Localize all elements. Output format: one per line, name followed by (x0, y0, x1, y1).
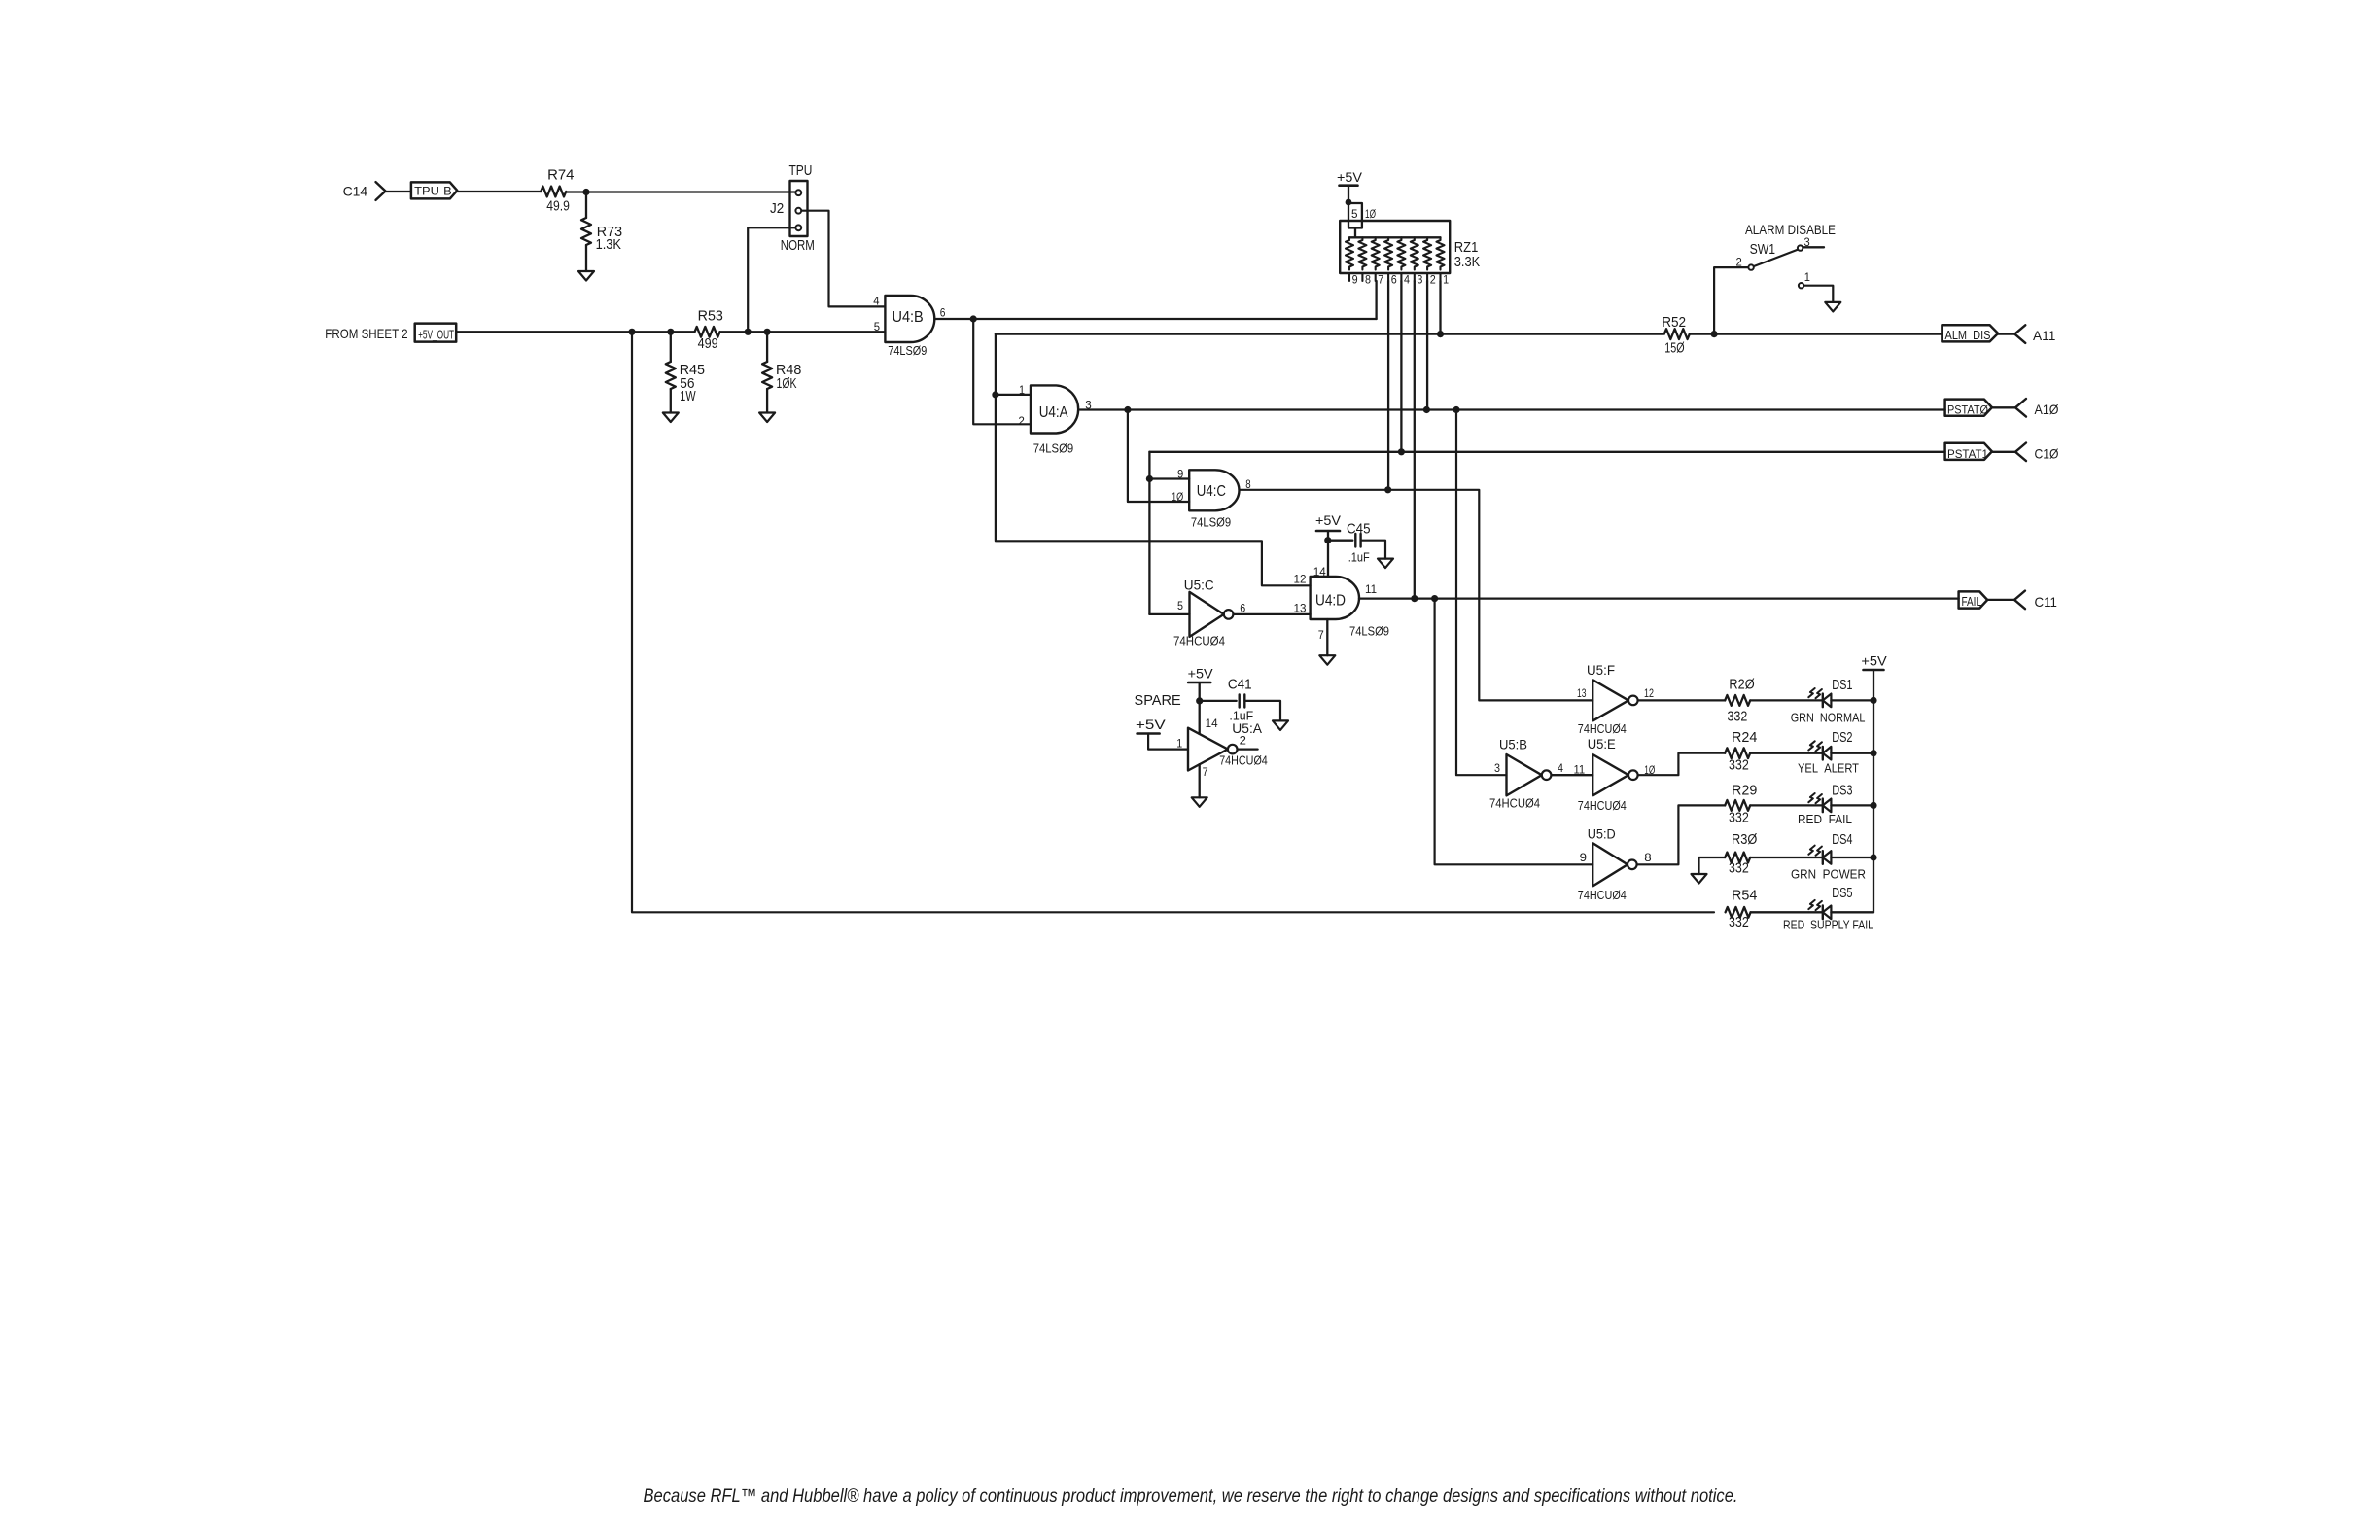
svg-text:C11: C11 (2035, 594, 2058, 610)
svg-text:14: 14 (1206, 717, 1218, 730)
svg-text:SPARE: SPARE (1135, 693, 1182, 709)
svg-text:R74: R74 (547, 167, 574, 183)
svg-text:A11: A11 (2033, 328, 2056, 343)
svg-text:8: 8 (1644, 851, 1652, 864)
svg-text:1: 1 (1443, 275, 1449, 287)
svg-text:332: 332 (1729, 811, 1749, 826)
svg-text:C14: C14 (343, 184, 368, 199)
svg-text:499: 499 (698, 336, 718, 352)
svg-text:R2Ø: R2Ø (1729, 678, 1754, 693)
svg-text:RED FAIL: RED FAIL (1798, 812, 1852, 826)
svg-text:C41: C41 (1228, 678, 1252, 693)
svg-text:12: 12 (1644, 686, 1654, 700)
svg-text:2: 2 (1240, 734, 1247, 748)
svg-text:+5V: +5V (1136, 717, 1166, 732)
svg-text:TPU-B: TPU-B (414, 185, 452, 198)
svg-text:J2: J2 (770, 201, 784, 217)
svg-text:11: 11 (1574, 763, 1586, 777)
svg-text:1Ø: 1Ø (1644, 763, 1655, 777)
svg-text:RZ1: RZ1 (1454, 240, 1479, 256)
svg-text:+5V: +5V (1315, 513, 1341, 528)
svg-text:2: 2 (1430, 275, 1436, 287)
svg-text:U5:D: U5:D (1588, 827, 1616, 842)
svg-text:1Ø: 1Ø (1172, 490, 1183, 504)
svg-text:49.9: 49.9 (546, 199, 570, 215)
svg-text:A1Ø: A1Ø (2035, 402, 2059, 417)
svg-text:U5:E: U5:E (1588, 737, 1616, 752)
svg-text:+5V_OUT: +5V_OUT (418, 328, 454, 341)
svg-text:9: 9 (1580, 851, 1588, 864)
svg-text:DS1: DS1 (1832, 678, 1852, 693)
svg-text:2: 2 (1736, 256, 1743, 269)
svg-text:DS3: DS3 (1832, 784, 1852, 799)
svg-text:74HCUØ4: 74HCUØ4 (1578, 798, 1627, 813)
svg-text:1.3K: 1.3K (596, 237, 622, 253)
svg-text:2: 2 (1018, 414, 1025, 428)
svg-text:6: 6 (1391, 275, 1397, 287)
svg-text:74LSØ9: 74LSØ9 (888, 343, 927, 358)
svg-text:3: 3 (1417, 275, 1422, 287)
svg-text:FAIL: FAIL (1962, 595, 1982, 609)
svg-text:1Ø: 1Ø (1365, 209, 1376, 221)
svg-text:C1Ø: C1Ø (2035, 445, 2059, 461)
svg-text:1ØK: 1ØK (777, 376, 797, 392)
svg-text:12: 12 (1294, 573, 1307, 586)
svg-text:1: 1 (1176, 737, 1182, 751)
svg-text:GRN NORMAL: GRN NORMAL (1791, 711, 1866, 725)
svg-text:C45: C45 (1347, 522, 1371, 538)
svg-text:DS2: DS2 (1832, 730, 1852, 746)
svg-text:3: 3 (1804, 235, 1810, 249)
svg-text:1: 1 (1804, 270, 1810, 284)
svg-text:U5:B: U5:B (1499, 738, 1527, 752)
svg-text:ALM_DIS: ALM_DIS (1945, 329, 1991, 342)
svg-text:4: 4 (1557, 761, 1563, 775)
svg-text:U4:A: U4:A (1039, 404, 1069, 421)
svg-text:TPU: TPU (789, 163, 813, 179)
svg-text:RED SUPPLY FAIL: RED SUPPLY FAIL (1783, 918, 1873, 932)
svg-text:GRN POWER: GRN POWER (1791, 867, 1866, 882)
svg-text:9: 9 (1352, 275, 1358, 287)
svg-text:+5V: +5V (1188, 667, 1213, 682)
svg-text:U4:B: U4:B (892, 309, 924, 326)
svg-text:74HCUØ4: 74HCUØ4 (1489, 796, 1540, 811)
svg-text:U5:F: U5:F (1587, 663, 1615, 678)
svg-text:7: 7 (1378, 275, 1383, 287)
svg-text:R52: R52 (1662, 315, 1686, 331)
svg-text:3: 3 (1494, 761, 1500, 775)
svg-text:YEL ALERT: YEL ALERT (1798, 761, 1859, 776)
svg-text:DS5: DS5 (1832, 886, 1852, 901)
svg-text:7: 7 (1203, 765, 1208, 779)
svg-text:5: 5 (874, 320, 881, 333)
svg-text:SW1: SW1 (1750, 242, 1775, 258)
svg-text:4: 4 (1404, 275, 1411, 287)
svg-text:R24: R24 (1732, 730, 1757, 746)
svg-text:3.3K: 3.3K (1454, 255, 1481, 270)
svg-text:.1uF: .1uF (1348, 550, 1370, 565)
svg-text:3: 3 (1085, 399, 1092, 412)
svg-text:74LSØ9: 74LSØ9 (1191, 515, 1231, 530)
svg-text:332: 332 (1729, 861, 1749, 877)
svg-text:1W: 1W (680, 389, 696, 404)
svg-text:6: 6 (940, 306, 946, 320)
svg-text:332: 332 (1729, 758, 1749, 774)
svg-text:15Ø: 15Ø (1664, 340, 1684, 356)
svg-text:9: 9 (1177, 467, 1184, 480)
svg-text:4: 4 (873, 295, 880, 308)
svg-text:ALARM DISABLE: ALARM DISABLE (1745, 223, 1836, 238)
svg-text:332: 332 (1728, 710, 1748, 725)
svg-text:FROM SHEET 2: FROM SHEET 2 (325, 326, 407, 341)
svg-text:8: 8 (1245, 477, 1251, 491)
svg-text:74HCUØ4: 74HCUØ4 (1219, 753, 1268, 768)
svg-text:14: 14 (1313, 565, 1326, 578)
svg-text:DS4: DS4 (1832, 832, 1852, 848)
svg-text:R54: R54 (1732, 889, 1757, 904)
svg-text:+5V: +5V (1337, 170, 1362, 185)
svg-text:74HCUØ4: 74HCUØ4 (1578, 721, 1627, 736)
svg-text:8: 8 (1365, 275, 1371, 287)
svg-text:13: 13 (1294, 602, 1307, 615)
svg-text:13: 13 (1577, 686, 1587, 700)
svg-text:NORM: NORM (781, 238, 815, 254)
svg-text:332: 332 (1729, 915, 1749, 930)
svg-text:74HCUØ4: 74HCUØ4 (1578, 888, 1627, 902)
svg-text:U5:C: U5:C (1184, 578, 1214, 593)
svg-text:1: 1 (1019, 383, 1025, 397)
svg-text:7: 7 (1318, 628, 1324, 642)
svg-text:Because RFL™ and Hubbell® have: Because RFL™ and Hubbell® have a policy … (644, 1487, 1738, 1507)
svg-text:U4:D: U4:D (1315, 593, 1346, 610)
svg-text:+5V: +5V (1861, 653, 1886, 668)
svg-text:11: 11 (1365, 582, 1377, 596)
svg-text:PSTATØ: PSTATØ (1947, 403, 1988, 417)
svg-text:5: 5 (1351, 209, 1358, 221)
svg-text:74LSØ9: 74LSØ9 (1349, 624, 1389, 639)
svg-text:U4:C: U4:C (1197, 483, 1226, 500)
svg-text:74HCUØ4: 74HCUØ4 (1173, 634, 1225, 648)
svg-text:5: 5 (1177, 599, 1183, 612)
svg-text:R3Ø: R3Ø (1732, 832, 1757, 848)
svg-text:U5:A: U5:A (1232, 721, 1262, 736)
svg-text:6: 6 (1240, 602, 1245, 615)
svg-text:R29: R29 (1732, 784, 1757, 799)
svg-text:PSTAT1: PSTAT1 (1947, 447, 1988, 461)
svg-text:74LSØ9: 74LSØ9 (1033, 441, 1074, 456)
svg-text:R53: R53 (698, 308, 723, 324)
